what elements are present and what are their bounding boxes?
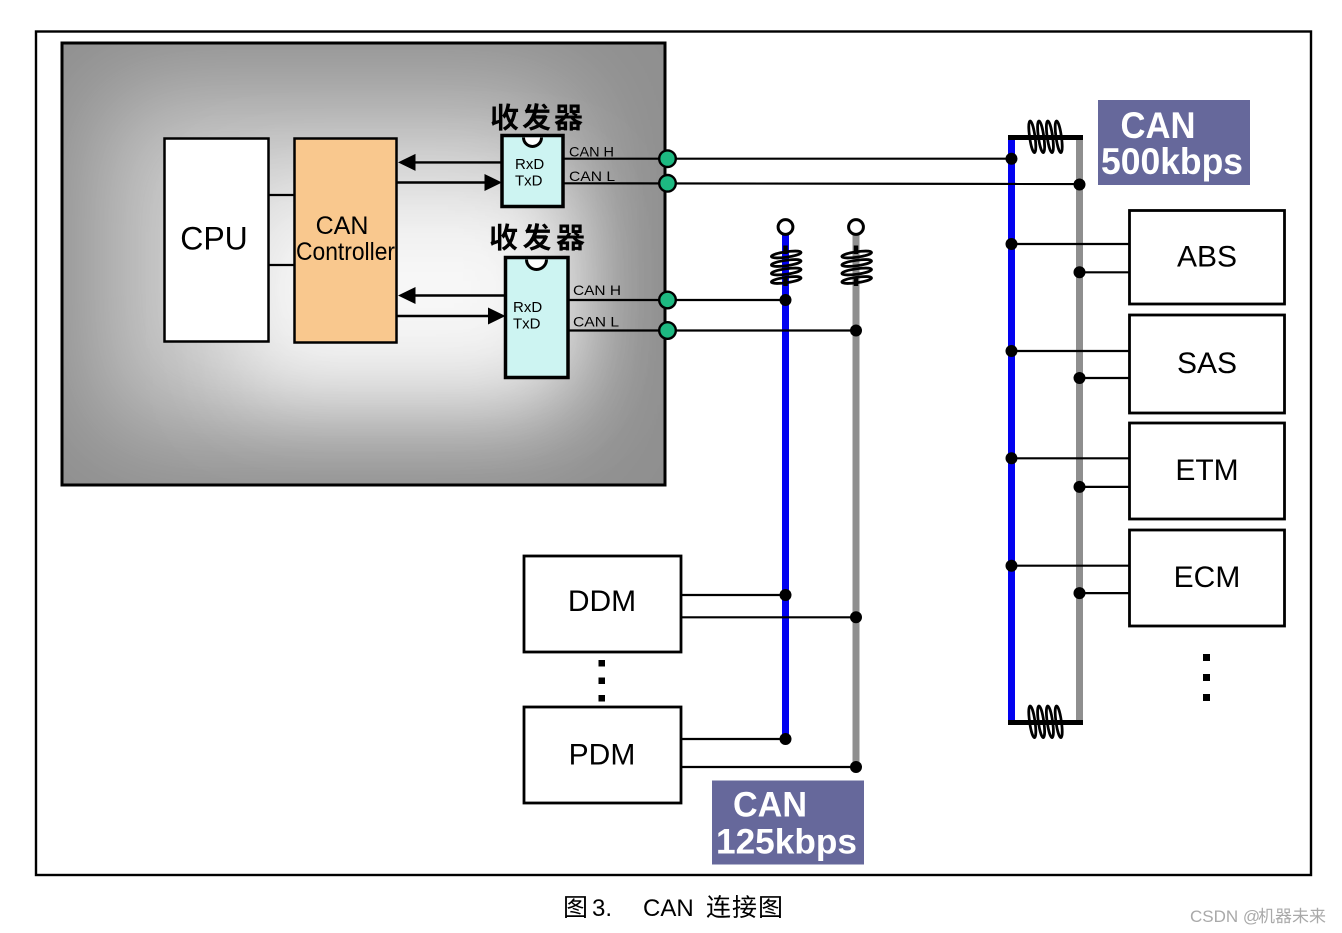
terminator resistor R4 (top of 125k CANL) (841, 246, 871, 287)
wire PDM CANH (681, 738, 786, 740)
node box SAS (1130, 315, 1285, 413)
transceiver U1 notch (524, 138, 542, 147)
connector node CANL U1 (green) (659, 175, 676, 192)
svg-text:CAN H: CAN H (569, 144, 614, 160)
wire 500k CANH to ETM (1012, 457, 1130, 459)
label CAN 500kbps (1098, 100, 1250, 185)
svg-text:Controller: Controller (296, 238, 395, 266)
wire 500k CANH to ABS (1012, 243, 1130, 245)
svg-text:CAN: CAN (316, 212, 369, 240)
junction node 500k CANL/ETM (1074, 481, 1086, 493)
CAN H bus 125kbps (blue vertical) (782, 235, 789, 742)
wire CANH U2 to 125k bus (568, 299, 786, 301)
svg-text:TxD: TxD (513, 316, 541, 333)
junction node 125k CANL/DDM (850, 611, 862, 623)
svg-text:ETM: ETM (1175, 454, 1238, 487)
junction node 500k CANH/U1 (1006, 153, 1018, 165)
junction node 500k CANH/ECM (1006, 560, 1018, 572)
junction node 500k CANL/U1 (1074, 179, 1086, 191)
svg-text:3.: 3. (592, 895, 612, 922)
arrow TxD2 (controller to transceiver2) (397, 308, 506, 325)
junction node 500k CANL/ABS (1074, 266, 1086, 278)
wire CANL U1 to 500k bus (563, 182, 1080, 185)
wire 500k CANH to ECM (1012, 565, 1130, 567)
svg-text:RxD: RxD (513, 299, 542, 316)
wire 500k CANL to ETM (1080, 486, 1130, 488)
MCU block (gray gradient box) (62, 43, 665, 485)
wire 500k CANL to SAS (1080, 377, 1130, 379)
wire CANH U1 to 500k bus (563, 158, 1012, 160)
node box ABS (1130, 211, 1285, 305)
connector node CANL U2 (green) (659, 322, 676, 339)
svg-text:CAN L: CAN L (569, 168, 615, 184)
wire 500k CANL to ABS (1080, 271, 1130, 273)
node box PDM (524, 707, 681, 803)
svg-text:500kbps: 500kbps (1101, 141, 1243, 182)
connector node CANH U1 (green) (659, 150, 676, 167)
wire CPU-controller upper (269, 194, 295, 196)
svg-text:CAN L: CAN L (573, 314, 619, 330)
terminator resistor R1 (top of 500k bus) (1008, 121, 1083, 153)
node box ECM (1130, 530, 1285, 626)
label 收发器 (transceiver 2) (490, 223, 584, 251)
svg-text:CPU: CPU (180, 221, 248, 257)
arrow TxD1 (controller to transceiver1) (397, 174, 503, 191)
wire 500k CANH to SAS (1012, 350, 1130, 352)
svg-text:CAN H: CAN H (573, 282, 621, 298)
svg-text:RxD: RxD (515, 156, 544, 173)
wire DDM CANL (681, 616, 856, 618)
svg-text:ECM: ECM (1174, 561, 1241, 594)
ellipsis between DDM and PDM (599, 660, 606, 702)
svg-text:CAN: CAN (643, 895, 694, 922)
wire 500k CANL to ECM (1080, 592, 1130, 594)
CAN L bus 125kbps (gray vertical) (853, 235, 860, 768)
svg-text:CAN: CAN (1121, 105, 1196, 146)
CPU box (165, 139, 269, 342)
pin labels RxD TxD (U2) (513, 299, 542, 333)
arrow RxD2 (transceiver2 to controller) (398, 287, 505, 304)
junction node 500k CANL/SAS (1074, 372, 1086, 384)
svg-text:CSDN @: CSDN @ (1190, 907, 1260, 926)
svg-text:PDM: PDM (569, 739, 636, 772)
ellipsis below ECM (1203, 654, 1210, 701)
svg-text:TxD: TxD (515, 173, 543, 190)
CAN H bus 500kbps (blue vertical) (1008, 137, 1015, 724)
junction node 125k CANH/DDM (780, 589, 792, 601)
CAN Controller box (295, 139, 397, 343)
svg-text:CAN: CAN (733, 786, 807, 825)
junction node 125k CANH/U2 (780, 294, 792, 306)
connector node CANH U2 (green) (659, 292, 676, 309)
CAN L bus 500kbps (gray vertical) (1076, 138, 1083, 720)
wire DDM CANH (681, 594, 786, 596)
svg-text:ABS: ABS (1177, 240, 1237, 273)
wire PDM CANL (681, 766, 856, 768)
junction node 125k CANH/PDM (780, 733, 792, 745)
open terminal circle (125k CANH top) (778, 220, 793, 235)
transceiver U2 notch (527, 260, 547, 270)
pin labels RxD TxD (U1) (515, 156, 544, 190)
open terminal circle (125k CANL top) (849, 220, 864, 235)
watermark CSDN @机器未来 (1190, 907, 1325, 926)
junction node 500k CANH/SAS (1006, 345, 1018, 357)
svg-text:SAS: SAS (1177, 347, 1237, 380)
terminator resistor R3 (top of 125k CANH) (771, 246, 801, 287)
junction node 500k CANH/ABS (1006, 238, 1018, 250)
terminator resistor R2 (bottom of 500k bus) (1008, 706, 1083, 738)
wire CANL U2 to 125k bus (568, 329, 856, 331)
node box ETM (1130, 423, 1285, 519)
junction node 500k CANH/ETM (1006, 452, 1018, 464)
junction node 125k CANL/U2 (850, 325, 862, 337)
transceiver U1 box (502, 136, 563, 207)
junction node 125k CANL/PDM (850, 761, 862, 773)
junction node 500k CANL/ECM (1074, 587, 1086, 599)
node box DDM (524, 556, 681, 652)
svg-text:DDM: DDM (568, 585, 636, 618)
label 收发器 (transceiver 1) (491, 103, 582, 131)
wire CPU-controller lower (269, 264, 295, 266)
transceiver U2 box (506, 258, 569, 378)
arrow RxD1 (transceiver1 to controller) (398, 154, 502, 171)
svg-text:125kbps: 125kbps (716, 823, 857, 862)
label CAN 125kbps (712, 781, 864, 865)
caption 图 3. CAN 连接图 (565, 895, 781, 922)
